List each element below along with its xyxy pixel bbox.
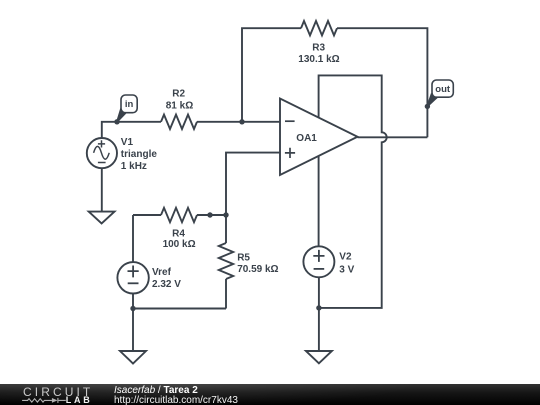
svg-text:http://circuitlab.com/cr7kv43: http://circuitlab.com/cr7kv43 [114,395,238,405]
svg-text:3 V: 3 V [339,265,354,276]
svg-text:1 kHz: 1 kHz [121,161,147,172]
svg-text:in: in [125,99,134,110]
svg-text:Vref: Vref [152,267,172,278]
svg-text:out: out [435,84,451,95]
svg-text:OA1: OA1 [296,133,317,144]
svg-text:R3: R3 [312,43,325,54]
svg-text:R5: R5 [237,253,250,264]
svg-text:2.32 V: 2.32 V [152,279,181,290]
svg-text:81 kΩ: 81 kΩ [166,100,193,111]
svg-text:130.1 kΩ: 130.1 kΩ [298,54,339,65]
svg-text:70.59 kΩ: 70.59 kΩ [237,264,278,275]
svg-text:V1: V1 [121,137,134,148]
svg-text:R2: R2 [172,88,185,99]
svg-text:triangle: triangle [121,149,158,160]
svg-text:V2: V2 [339,252,352,263]
svg-text:R4: R4 [172,228,185,239]
svg-text:LAB: LAB [66,395,93,405]
svg-text:100 kΩ: 100 kΩ [163,239,196,250]
